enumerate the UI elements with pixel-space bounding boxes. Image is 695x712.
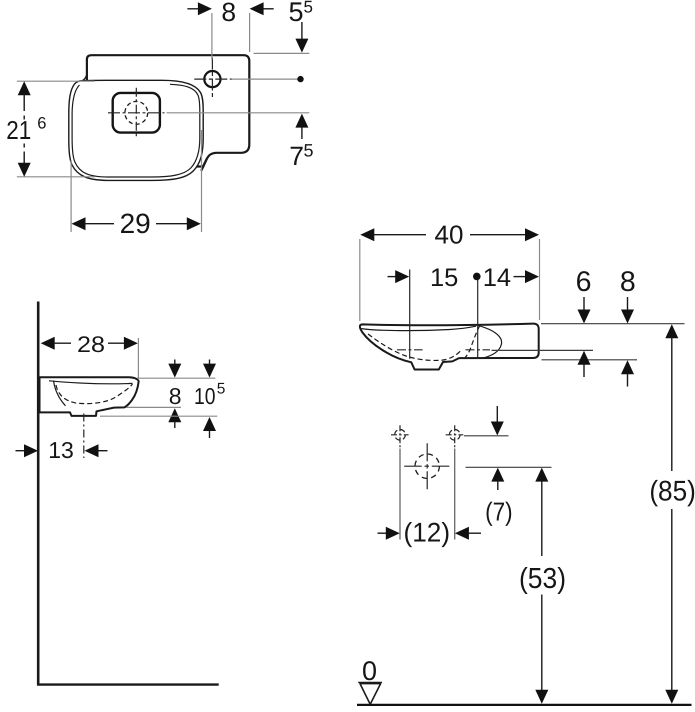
fixing hole left cross <box>391 425 409 448</box>
svg-text:8: 8 <box>169 383 182 409</box>
top view: drain square <box>113 93 160 133</box>
svg-text:21: 21 <box>6 115 31 145</box>
svg-text:6: 6 <box>576 266 592 298</box>
svg-text:29: 29 <box>120 208 151 239</box>
dim 21.6: dimension line and arrows <box>18 81 31 95</box>
side view: rim underside line <box>49 381 133 384</box>
svg-text:5: 5 <box>217 381 226 398</box>
dim 8 top: extension lines <box>211 13 213 60</box>
top view: deck edge tail through bowl <box>201 159 207 171</box>
dim 40: extension lines <box>359 239 361 321</box>
zero level: open triangle <box>360 684 381 705</box>
zero level: underline <box>358 681 382 683</box>
dim 7.5: arrow up <box>301 127 303 140</box>
dim 29: dimension line and arrows <box>72 217 86 230</box>
dim (12): arrows <box>378 532 387 534</box>
top view: deck outline <box>87 55 249 166</box>
dim 8 top: dimension line and arrows <box>187 8 199 10</box>
svg-text:5: 5 <box>304 0 313 16</box>
top view: bowl inner rim <box>72 84 200 177</box>
front view: faucet axis cross <box>466 280 491 360</box>
dim 21.6: extension lines <box>17 80 95 82</box>
front view: hidden bowl dashed left <box>368 334 462 360</box>
svg-text:14: 14 <box>483 264 511 292</box>
side view: inner back curve <box>54 381 66 406</box>
siphon level line <box>466 466 552 468</box>
side view: hidden bowl dashed curve <box>56 384 133 404</box>
svg-text:5: 5 <box>304 140 314 160</box>
side view: basin profile <box>40 377 139 416</box>
arrow to fixing hole level <box>496 406 498 422</box>
svg-text:(12): (12) <box>404 518 451 548</box>
svg-text:15: 15 <box>430 264 458 292</box>
side view: drain dash-dot centerline <box>83 414 85 459</box>
side view: wall line <box>37 302 40 685</box>
rim top extension line <box>137 377 215 379</box>
dim (85): line arrows label <box>665 324 678 338</box>
dim 13: dimension line and arrows <box>16 450 25 452</box>
svg-text:(85): (85) <box>649 475 695 507</box>
front view: rim top reference line <box>541 323 685 325</box>
dim 8 side: arrows <box>174 360 176 365</box>
svg-text:13: 13 <box>48 437 74 463</box>
svg-text:(53): (53) <box>519 563 566 595</box>
dim 6: arrows <box>583 297 585 310</box>
svg-text:0: 0 <box>362 656 377 686</box>
svg-text:40: 40 <box>435 220 464 250</box>
dim 8 front: arrows <box>627 297 629 310</box>
dim 8 side: reference line <box>127 406 182 408</box>
svg-text:5: 5 <box>289 0 304 27</box>
front view: hidden bowl dashed right <box>465 326 480 358</box>
fixing holes level line <box>464 435 509 437</box>
siphon dashed circle <box>415 454 439 478</box>
side view: floor line <box>37 683 219 685</box>
dim 15 and 14: dimension line and arrows <box>388 276 396 278</box>
front view: bowl cut solid curve <box>476 325 502 358</box>
dim 10.5: arrows <box>209 360 211 365</box>
dim (53): line arrows label <box>535 468 548 482</box>
dim (7): arrow up <box>491 468 504 482</box>
dim (12): extension lines <box>399 449 401 540</box>
front view: basin outline <box>360 324 539 370</box>
top view: drain centerline extension right <box>167 112 310 114</box>
fixing hole right cross <box>446 425 464 448</box>
top view: faucet hole <box>204 71 220 87</box>
front view: drain axis cross <box>397 270 423 359</box>
siphon center cross <box>404 443 449 490</box>
top view: drain dashed circle <box>125 101 148 124</box>
svg-text:10: 10 <box>194 383 216 409</box>
top view: drain center cross <box>108 88 165 139</box>
svg-text:6: 6 <box>37 115 46 133</box>
top edge extension line for 5.5 <box>254 52 310 54</box>
node: faucet line end dot <box>297 76 303 82</box>
front view: rim inner line <box>361 326 476 330</box>
node: dot between 15 and 14 <box>473 273 481 281</box>
dim 40: dimension line and arrows <box>360 228 374 241</box>
front view: overflow level reference line <box>492 349 594 351</box>
svg-text:28: 28 <box>77 332 105 357</box>
top view: faucet centerline extension <box>232 78 301 80</box>
svg-text:8: 8 <box>221 0 236 27</box>
dim 28: dimension line and arrows <box>41 337 55 350</box>
floor line front view <box>357 704 692 706</box>
top view: bowl outer rim <box>69 74 203 180</box>
svg-text:7: 7 <box>289 141 304 171</box>
dim 5.5: arrow down <box>301 22 303 41</box>
front view: deck bottom reference line <box>542 359 638 361</box>
dim 10.5: reference line <box>100 415 217 417</box>
svg-text:8: 8 <box>620 266 636 298</box>
top view: faucet center cross <box>194 58 231 99</box>
svg-text:(7): (7) <box>485 497 513 527</box>
dim 29: extension lines <box>70 160 72 232</box>
dim 28: extension line <box>137 338 139 379</box>
